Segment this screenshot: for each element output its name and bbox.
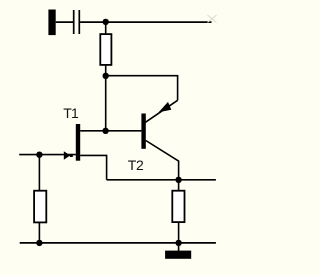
wire right resistor bottom lead xyxy=(178,222,180,243)
resistor R3 xyxy=(172,191,184,222)
wire ground stub xyxy=(178,243,180,251)
node emitter junction xyxy=(175,177,181,183)
label T1 xyxy=(63,106,78,120)
node base junction xyxy=(102,128,108,134)
ground xyxy=(165,251,191,259)
wire R1 bottom lead xyxy=(105,65,107,76)
label T2 xyxy=(128,158,144,172)
input terminal xyxy=(48,10,55,36)
wire T1 collector to T2 base xyxy=(80,130,141,132)
transistor T1 arrow nub xyxy=(70,154,73,157)
transistor T2 base bar xyxy=(141,114,145,149)
wire emitter row xyxy=(107,179,216,181)
wire left resistor top lead xyxy=(38,155,40,191)
transistor T2 emitter arrow xyxy=(159,102,172,112)
wire node down to base junction xyxy=(105,76,107,131)
wire node to T2 emitter corner xyxy=(106,76,178,101)
transistor T2 emitter lead xyxy=(145,100,177,122)
capacitor C1 xyxy=(74,10,80,34)
wire input to T1 xyxy=(19,154,76,156)
node below R1 xyxy=(103,73,109,79)
wire T1 emitter right lead xyxy=(80,155,106,179)
transistor T2 collector lead xyxy=(146,141,179,180)
wire R1 top lead xyxy=(105,22,107,34)
wire left resistor bottom lead xyxy=(38,222,40,243)
node left junction xyxy=(36,152,42,158)
wire top rail xyxy=(80,21,211,23)
wire bottom rail xyxy=(20,242,216,244)
wire terminal to capacitor xyxy=(56,21,73,23)
node bottom right junction xyxy=(175,240,181,246)
transistor T1 arrow xyxy=(64,151,71,160)
node top junction xyxy=(103,19,109,25)
resistor R2 xyxy=(34,191,46,223)
node bottom left junction xyxy=(36,240,42,246)
faint grid cross at rail end xyxy=(208,15,217,23)
transistor T1 base bar xyxy=(76,124,80,161)
wire right resistor top lead xyxy=(178,180,180,191)
resistor R1 xyxy=(100,34,111,65)
